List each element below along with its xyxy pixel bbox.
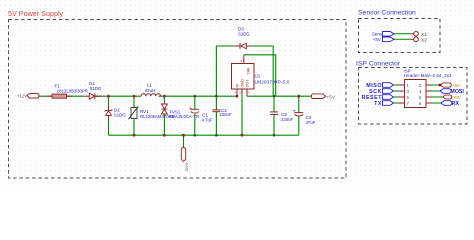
svg-text:SMAJ5.0CA-TR: SMAJ5.0CA-TR [169,114,200,119]
svg-text:+5V: +5V [373,37,381,42]
svg-text:S1DG: S1DG [90,86,102,91]
svg-text:47uH: 47uH [145,88,155,93]
svg-text:GND: GND [184,163,189,172]
svg-text:TX: TX [374,101,382,107]
svg-text:GND: GND [452,96,461,100]
svg-text:4.7uF: 4.7uF [202,117,213,122]
svg-text:1812L050/30PR: 1812L050/30PR [57,88,88,93]
svg-text:+5V: +5V [327,94,336,99]
svg-text:5V Power Supply: 5V Power Supply [8,9,64,18]
svg-text:Header-Male-2.54_2x4: Header-Male-2.54_2x4 [404,73,452,78]
svg-text:S1DG: S1DG [238,31,250,36]
svg-text:Sensor Connection: Sensor Connection [358,10,416,17]
svg-text:47uF: 47uF [306,120,316,125]
svg-text:S1DG: S1DG [114,113,126,118]
svg-text:X1: X1 [421,32,427,38]
svg-text:MOSI: MOSI [451,89,465,95]
svg-text:Sens: Sens [372,32,383,37]
svg-text:L1: L1 [147,82,153,87]
svg-text:TAB: TAB [247,67,251,75]
svg-text:X2: X2 [421,37,427,43]
svg-text:U1: U1 [255,74,261,79]
svg-text:OUT: OUT [245,79,249,88]
svg-text:220nF: 220nF [281,117,294,122]
svg-text:GND: GND [240,79,244,88]
svg-text:ISP Connector: ISP Connector [356,61,401,68]
svg-text:100nF: 100nF [219,112,232,117]
svg-text:IN: IN [235,83,239,87]
svg-text:LM2937IMP-5.0: LM2937IMP-5.0 [255,79,291,84]
svg-text:+: + [293,109,296,115]
svg-text:+12V: +12V [17,94,27,99]
svg-text:+5V: +5V [453,83,461,88]
svg-text:RX: RX [452,101,460,107]
